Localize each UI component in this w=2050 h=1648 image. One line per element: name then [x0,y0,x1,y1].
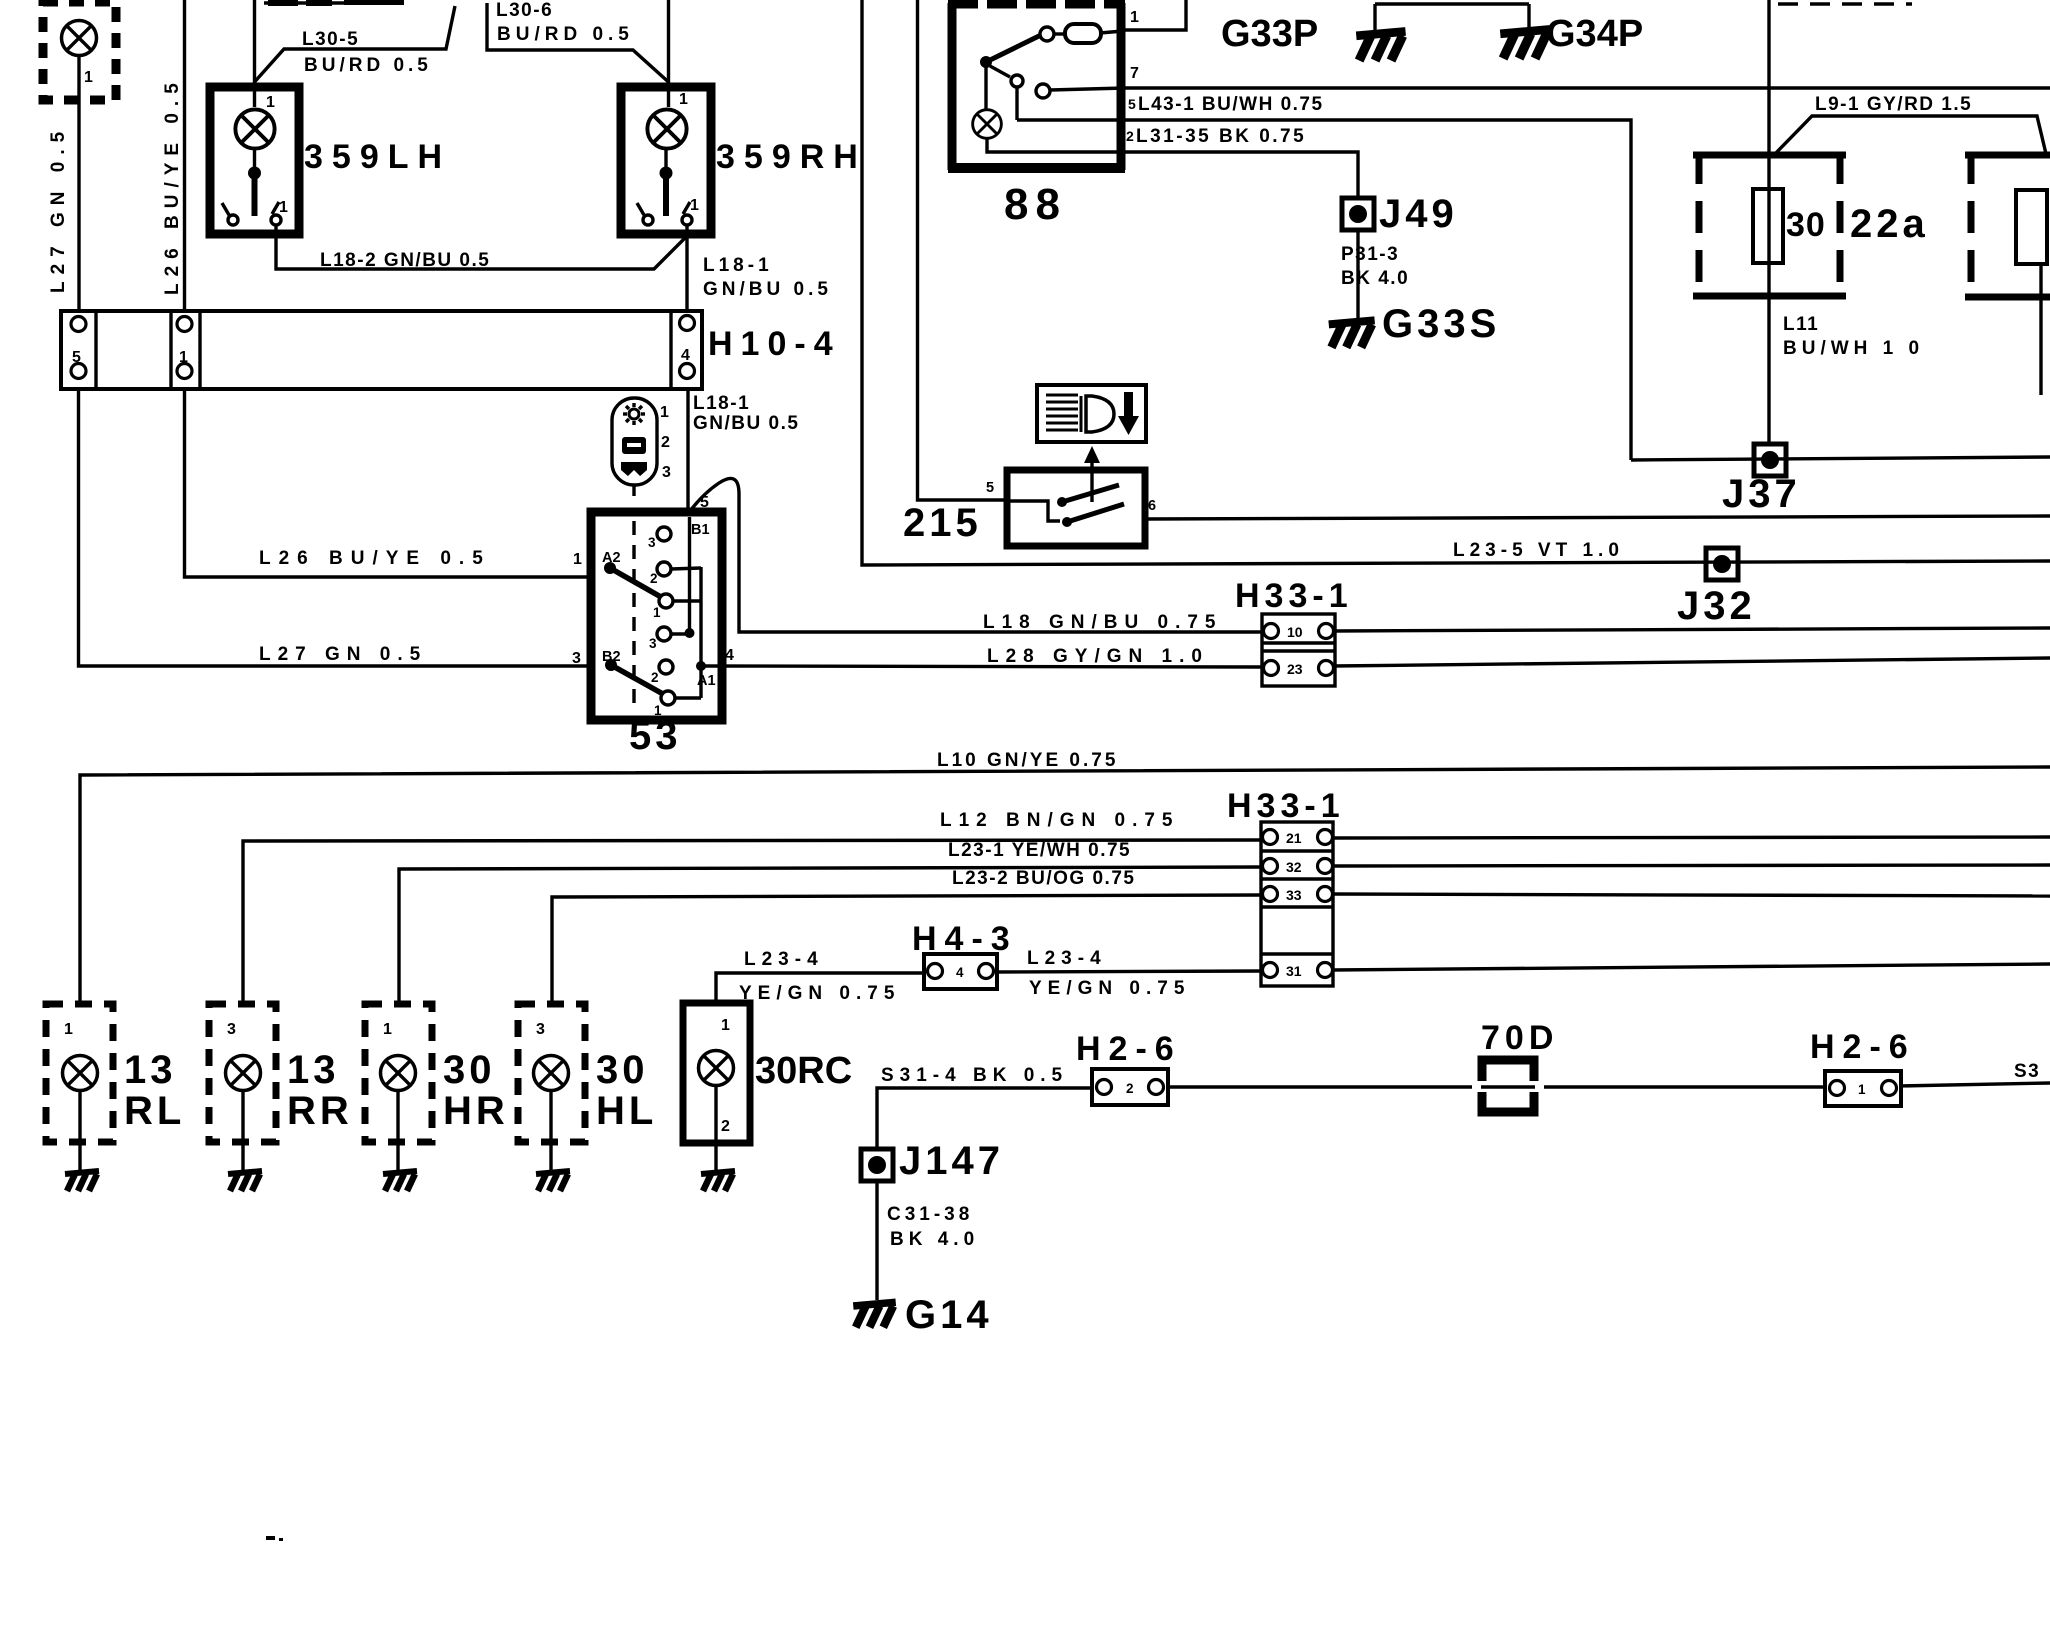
svg-text:L11: L11 [1783,314,1819,335]
svg-text:2: 2 [1126,128,1134,144]
svg-text:L28 GY/GN 1.0: L28 GY/GN 1.0 [987,646,1209,667]
svg-text:L18-1: L18-1 [703,255,773,276]
svg-text:L31-35 BK 0.75: L31-35 BK 0.75 [1136,126,1306,147]
svg-text:S3: S3 [2014,1061,2040,1082]
svg-text:L26 BU/YE 0.5: L26 BU/YE 0.5 [162,76,183,295]
svg-text:L23-4: L23-4 [744,949,824,970]
svg-text:G33P: G33P [1221,13,1318,55]
svg-text:1: 1 [660,404,669,421]
svg-text:L12 BN/GN 0.75: L12 BN/GN 0.75 [940,810,1180,831]
svg-text:31: 31 [1286,963,1302,979]
svg-text:1: 1 [690,197,699,214]
svg-text:5: 5 [72,349,81,366]
svg-text:23: 23 [1287,661,1303,677]
svg-text:1: 1 [1130,9,1139,26]
svg-text:L23-4: L23-4 [1027,948,1107,969]
svg-text:1: 1 [679,91,688,108]
svg-text:13: 13 [124,1048,177,1092]
svg-text:22a: 22a [1850,202,1929,246]
svg-text:HL: HL [596,1089,657,1133]
svg-text:33: 33 [1286,887,1302,903]
svg-text:H10-4: H10-4 [708,325,841,363]
svg-text:H2-6: H2-6 [1810,1028,1916,1066]
svg-text:P31-3: P31-3 [1341,244,1399,265]
svg-text:G34P: G34P [1546,13,1643,55]
svg-text:3: 3 [227,1021,236,1038]
svg-text:S31-4 BK 0.5: S31-4 BK 0.5 [881,1065,1068,1086]
svg-text:3: 3 [536,1021,545,1038]
svg-text:1: 1 [653,605,661,620]
svg-text:A1: A1 [697,673,716,689]
svg-text:1: 1 [179,349,188,366]
svg-text:L27 GN 0.5: L27 GN 0.5 [259,644,427,665]
svg-text:1: 1 [383,1021,392,1038]
svg-text:L23-5 VT 1.0: L23-5 VT 1.0 [1453,540,1624,561]
svg-text:YE/GN 0.75: YE/GN 0.75 [739,983,900,1004]
svg-text:215: 215 [903,501,982,545]
svg-text:J147: J147 [899,1139,1004,1183]
svg-text:30RC: 30RC [755,1050,852,1092]
svg-text:4: 4 [725,647,734,664]
svg-text:J37: J37 [1722,472,1801,516]
svg-text:2: 2 [721,1118,730,1135]
svg-text:BK 4.0: BK 4.0 [1341,268,1409,289]
svg-text:G14: G14 [905,1293,993,1337]
svg-text:L18 GN/BU 0.75: L18 GN/BU 0.75 [983,612,1223,633]
svg-text:L10 GN/YE 0.75: L10 GN/YE 0.75 [937,750,1118,771]
svg-text:RR: RR [287,1089,353,1133]
svg-text:88: 88 [1004,180,1067,229]
svg-text:B2: B2 [602,649,621,665]
svg-text:30: 30 [443,1048,496,1092]
svg-text:5: 5 [700,494,709,511]
svg-text:3: 3 [662,464,671,481]
svg-text:B1: B1 [691,522,710,538]
svg-text:G33S: G33S [1382,302,1500,346]
svg-text:2: 2 [650,571,658,586]
svg-text:BU/RD 0.5: BU/RD 0.5 [497,24,634,45]
svg-text:1: 1 [721,1017,730,1034]
svg-text:21: 21 [1286,830,1302,846]
svg-text:13: 13 [287,1048,340,1092]
svg-text:RL: RL [124,1089,185,1133]
svg-text:BU/RD 0.5: BU/RD 0.5 [304,55,432,76]
svg-text:C31-38: C31-38 [887,1204,973,1225]
svg-text:L26 BU/YE 0.5: L26 BU/YE 0.5 [259,548,491,569]
svg-text:3: 3 [572,650,581,667]
svg-text:5: 5 [986,480,994,496]
svg-text:5: 5 [1128,96,1136,112]
svg-text:4: 4 [956,965,964,980]
svg-text:L43-1 BU/WH 0.75: L43-1 BU/WH 0.75 [1138,94,1324,115]
svg-text:359RH: 359RH [716,138,867,176]
svg-text:1: 1 [573,551,582,568]
svg-text:3: 3 [648,535,656,550]
svg-text:1: 1 [1858,1082,1866,1097]
svg-text:32: 32 [1286,859,1302,875]
svg-text:H2-6: H2-6 [1076,1030,1182,1068]
svg-text:L18-2 GN/BU 0.5: L18-2 GN/BU 0.5 [320,250,490,271]
svg-text:2: 2 [1126,1081,1134,1096]
svg-text:GN/BU 0.5: GN/BU 0.5 [703,279,832,300]
svg-text:1: 1 [64,1021,73,1038]
svg-text:1: 1 [84,69,93,86]
svg-text:2: 2 [651,670,659,685]
svg-text:L9-1 GY/RD 1.5: L9-1 GY/RD 1.5 [1815,94,1972,115]
svg-text:L23-1 YE/WH 0.75: L23-1 YE/WH 0.75 [948,840,1131,861]
svg-text:53: 53 [629,714,682,758]
svg-text:L27 GN 0.5: L27 GN 0.5 [48,125,69,293]
svg-text:H33-1: H33-1 [1227,787,1345,825]
svg-text:L18-1: L18-1 [693,393,750,414]
svg-text:L30-6: L30-6 [496,0,553,21]
svg-text:30: 30 [1786,206,1826,244]
svg-text:J32: J32 [1677,584,1756,628]
svg-text:1: 1 [266,94,275,111]
svg-text:BK 4.0: BK 4.0 [890,1229,979,1250]
svg-text:A2: A2 [602,550,621,566]
svg-text:YE/GN 0.75: YE/GN 0.75 [1029,978,1190,999]
svg-text:70D: 70D [1481,1019,1558,1057]
svg-text:359LH: 359LH [304,138,451,176]
svg-text:J49: J49 [1379,192,1458,236]
svg-text:6: 6 [1148,498,1156,514]
svg-text:H33-1: H33-1 [1235,577,1353,615]
svg-text:3: 3 [649,636,657,651]
svg-text:10: 10 [1287,624,1303,640]
svg-text:GN/BU 0.5: GN/BU 0.5 [693,413,799,434]
svg-text:2: 2 [661,434,670,451]
svg-text:30: 30 [596,1048,649,1092]
svg-text:L30-5: L30-5 [302,29,359,50]
svg-text:1: 1 [279,199,288,216]
svg-text:HR: HR [443,1089,509,1133]
svg-text:4: 4 [681,347,690,364]
svg-text:7: 7 [1130,65,1139,82]
svg-text:BU/WH 1 0: BU/WH 1 0 [1783,338,1924,359]
svg-text:L23-2 BU/OG 0.75: L23-2 BU/OG 0.75 [952,868,1135,889]
